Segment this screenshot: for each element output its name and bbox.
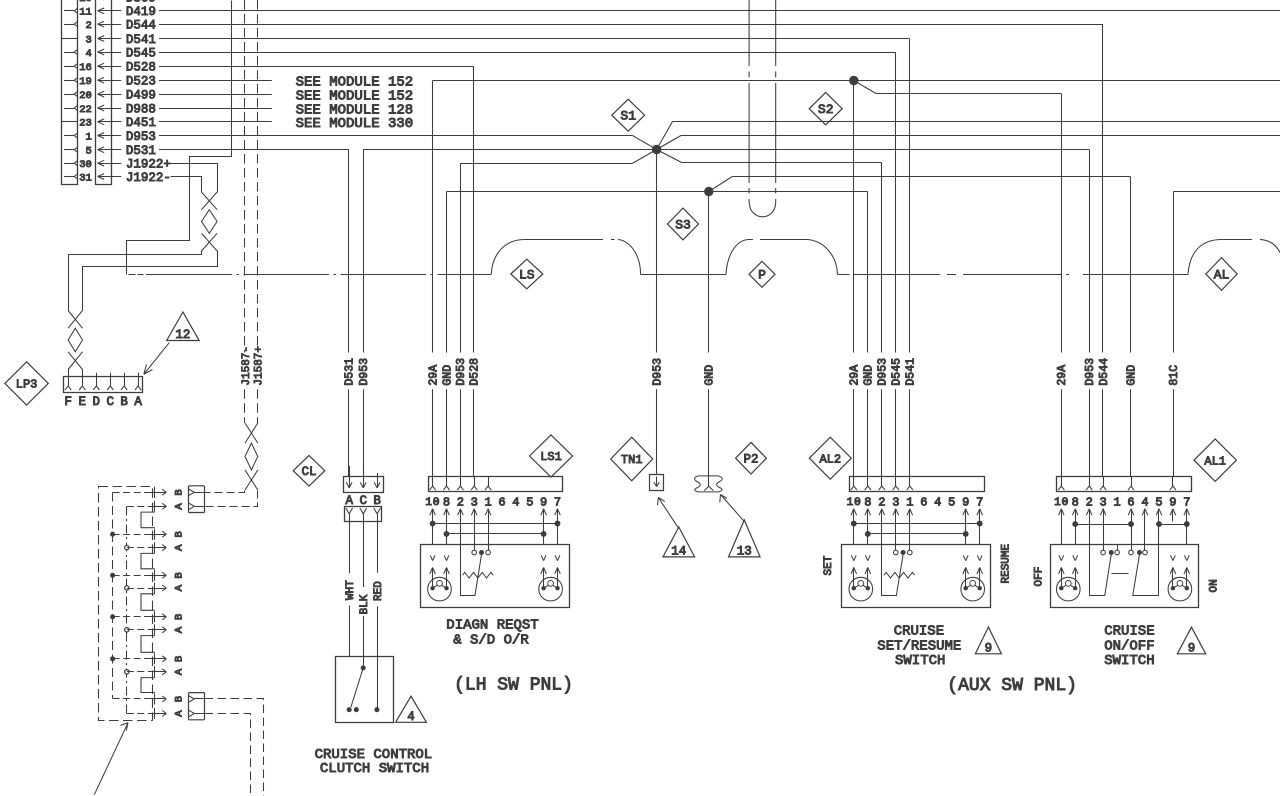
wire D545: [159, 52, 895, 54]
ECU pin 19 row (D523): [64, 75, 156, 89]
AL2 pin 1 arrow: [907, 509, 913, 522]
svg-text:B: B: [173, 696, 185, 702]
svg-text:D988: D988: [126, 102, 156, 116]
connector ECU outer box: [62, 0, 78, 185]
loop bracket 2: [141, 553, 155, 568]
switch DIAGN box: [421, 545, 570, 608]
svg-text:S1: S1: [620, 109, 636, 124]
connector AL2 box: [850, 476, 985, 491]
svg-text:11: 11: [79, 7, 92, 19]
AL1 pin 2 arrow: [1086, 509, 1092, 522]
svg-text:CLUTCH SWITCH: CLUTCH SWITCH: [320, 761, 429, 777]
svg-text:12: 12: [175, 328, 190, 342]
svg-text:B: B: [373, 494, 381, 508]
svg-text:A: A: [173, 626, 185, 633]
AL1 pin 6 arrow: [1128, 509, 1134, 522]
svg-text:SET: SET: [823, 555, 835, 575]
svg-text:8: 8: [864, 495, 871, 509]
svg-text:0: 0: [1061, 497, 1068, 509]
svg-text:D419: D419: [126, 5, 156, 19]
wire D953 to LS1: [460, 150, 656, 164]
svg-text:3: 3: [892, 495, 899, 509]
connector LP3 box: [64, 373, 143, 393]
diamond S3: [668, 208, 699, 240]
AL1 pin2 wire: [1089, 522, 1091, 596]
LS1 link pin10-pin7: [430, 521, 560, 544]
svg-text:ON/OFF: ON/OFF: [1104, 639, 1154, 655]
svg-text:5: 5: [85, 146, 91, 158]
svg-text:9: 9: [540, 495, 547, 509]
svg-text:D544: D544: [126, 18, 156, 32]
ECU pin 3 row (D541): [62, 33, 156, 47]
wire D953 to S1: [159, 136, 657, 150]
connector LS1 box: [429, 476, 563, 491]
wire D953 branch upper right: [657, 122, 1280, 150]
AL1 pin 9 arrow: [1170, 509, 1176, 522]
svg-text:D531: D531: [344, 358, 357, 386]
wire J1922 leg right step: [83, 251, 218, 311]
wire LP3 pin F lead: [68, 370, 70, 377]
wire J1922+ row: [171, 164, 218, 193]
dashed box outer: [99, 487, 153, 721]
AL1 pin 4 arrow: [1142, 509, 1148, 522]
DIAGN lamp right: [539, 577, 563, 601]
cruise control clutch switch box: [336, 657, 394, 723]
ON/OFF lamp left: [1057, 577, 1081, 601]
dashed stub pair left: [748, 0, 750, 204]
ECU pin 30 row (J1922+): [64, 158, 171, 172]
wire J1922 leg left step: [69, 251, 202, 311]
svg-text:WHT: WHT: [345, 580, 357, 600]
loom bump AL: [1188, 240, 1280, 275]
diamond TN1: [611, 437, 653, 481]
SET/RESUME contacts and lever: [882, 550, 912, 596]
ECU pin 11 row (D419): [64, 5, 156, 19]
svg-text:D953: D953: [876, 358, 889, 386]
svg-text:GND: GND: [862, 365, 875, 386]
column D528 to LS1: [469, 66, 482, 476]
ON/OFF left contacts and lever: [1089, 550, 1119, 596]
dashed J1587- line: [241, 0, 253, 423]
A/B pair 5 row A: [125, 666, 186, 677]
svg-text:29A: 29A: [849, 365, 862, 386]
svg-text:1: 1: [906, 495, 913, 509]
svg-text:4: 4: [512, 495, 519, 509]
dashed wire from Y-box row B to bottom: [205, 699, 264, 796]
svg-text:29A: 29A: [428, 365, 441, 386]
splice S3: [705, 187, 713, 195]
AL2 link pin10-pin7: [851, 521, 982, 544]
column 29A to AL2: [849, 81, 862, 477]
LS1 pin3 wire: [474, 522, 476, 551]
AL2 pin numbers: [846, 495, 983, 509]
svg-text:S3: S3: [675, 217, 691, 232]
AL2 pin 9 arrow: [963, 509, 969, 522]
column D953 to AL1: [1084, 150, 1097, 477]
wire D528: [159, 66, 474, 68]
svg-text:SET/RESUME: SET/RESUME: [877, 639, 961, 655]
AL1 link pin8-pin6: [1073, 522, 1134, 545]
svg-text:B: B: [173, 531, 185, 537]
wire BLK: [359, 522, 371, 668]
svg-text:J1922+: J1922+: [126, 158, 171, 172]
svg-text:20: 20: [79, 90, 92, 102]
wire D953 branch mid right: [657, 136, 1280, 150]
arrow from triangle 13: [720, 495, 745, 522]
triangle 9 callout (AL1): [1177, 627, 1205, 655]
svg-text:29A: 29A: [1056, 365, 1069, 386]
twisted pair to LP3: [68, 311, 82, 370]
svg-text:C: C: [107, 395, 115, 409]
svg-text:4: 4: [1141, 495, 1148, 509]
A/B pair 3 row A: [125, 583, 186, 594]
triangle 14 callout: [663, 527, 695, 558]
ECU pin 2 row (D544): [64, 18, 156, 32]
svg-text:9: 9: [1188, 641, 1196, 655]
svg-text:S2: S2: [818, 102, 834, 117]
svg-text:B: B: [120, 395, 128, 409]
A/B pair 1 row B: [113, 487, 186, 498]
svg-text:TN1: TN1: [621, 453, 643, 467]
dashed stub pair right: [775, 0, 777, 204]
svg-text:2: 2: [85, 20, 91, 32]
LS1 pin 3 arrow: [471, 509, 477, 522]
wire GND to AL1: [709, 177, 1131, 192]
svg-text:4: 4: [934, 495, 941, 509]
wire D531 row: [159, 149, 349, 151]
LS1 pin 10 arrow: [430, 509, 436, 522]
svg-text:6: 6: [920, 495, 927, 509]
LS1 pin 2 arrow: [458, 509, 464, 522]
svg-text:1: 1: [484, 495, 491, 509]
svg-text:8: 8: [1072, 495, 1079, 509]
wire D499 stub: [159, 94, 272, 96]
wire D988 stub: [159, 108, 272, 110]
connector Y-box bottom: [189, 693, 205, 720]
AL1 pin 8 arrow: [1073, 509, 1079, 522]
loom line right section: [837, 274, 1188, 276]
AL2 pin 10 arrow: [851, 509, 857, 522]
svg-text:LP3: LP3: [16, 378, 38, 392]
svg-text:CL: CL: [301, 465, 316, 479]
svg-text:9: 9: [985, 641, 993, 655]
connector AL1 box: [1057, 476, 1192, 491]
diamond AL1: [1194, 439, 1236, 481]
twisted pair J1922: [202, 192, 218, 251]
column D541 to AL2: [905, 39, 918, 477]
wire D544: [159, 24, 1103, 26]
dashed J1587+ line: [254, 0, 266, 423]
svg-text:30: 30: [79, 159, 92, 171]
LS1 pin numbers: [425, 495, 561, 509]
diamond P: [749, 261, 775, 287]
svg-text:B: B: [173, 614, 185, 620]
AL2 link pin8-pin9: [865, 522, 968, 545]
column D953 to TN1: [652, 150, 665, 475]
ECU pin 22 row (D988): [64, 102, 156, 116]
svg-text:13: 13: [737, 544, 752, 558]
A/B pair 5 row B: [111, 653, 186, 664]
svg-text:8: 8: [443, 495, 450, 509]
svg-text:J1587+: J1587+: [254, 346, 266, 386]
svg-text:81C: 81C: [1168, 365, 1181, 386]
wire LP3 pin E lead: [82, 370, 84, 377]
svg-text:B: B: [173, 656, 185, 662]
A/B pair 1 row A: [127, 501, 186, 512]
A/B pair 3 row B: [111, 570, 186, 581]
svg-text:D953: D953: [358, 358, 371, 386]
ECU pin 4 row (D545): [64, 46, 156, 60]
AL1 pin3 wire: [1103, 522, 1105, 551]
svg-text:SWITCH: SWITCH: [1104, 653, 1154, 669]
svg-text:1: 1: [1054, 497, 1061, 509]
svg-text:ON: ON: [1209, 579, 1221, 592]
LS1 pin1 wire: [488, 522, 490, 551]
diamond LP3: [5, 362, 48, 405]
diamond S2: [809, 93, 842, 125]
column D531 to CL: [344, 150, 357, 477]
ECU pin 16 row (D528): [64, 60, 156, 74]
ON/OFF mechanical link: [1112, 573, 1129, 575]
loom bump P: [726, 240, 837, 275]
svg-text:C: C: [359, 494, 367, 508]
connector Y-box top (J1587): [189, 486, 205, 513]
svg-text:6: 6: [1127, 495, 1134, 509]
svg-text:D953: D953: [652, 358, 665, 386]
arrow from triangle 14: [658, 498, 679, 529]
column D544 to AL1: [1098, 24, 1111, 476]
svg-text:2: 2: [1086, 495, 1093, 509]
ECU pin 1 row (D953): [64, 130, 156, 144]
SET/RESUME lamp left: [849, 577, 873, 601]
svg-text:5: 5: [1155, 495, 1162, 509]
AL2 pin 2 arrow: [879, 509, 885, 522]
svg-text:J1922-: J1922-: [126, 171, 171, 185]
wire WHT: [345, 522, 357, 656]
switch SET/RESUME box: [842, 545, 991, 608]
diamond AL2: [809, 437, 851, 479]
wire D953 through S1: [363, 149, 1089, 151]
svg-text:D531: D531: [126, 144, 156, 158]
svg-text:OFF: OFF: [1034, 567, 1046, 587]
svg-text:D544: D544: [1098, 358, 1111, 386]
svg-text:A: A: [173, 503, 185, 510]
A/B pair 6 row A: [127, 708, 186, 719]
AL1 pin6 wire: [1131, 522, 1133, 551]
diamond S1: [612, 99, 645, 131]
svg-text:D953: D953: [1084, 358, 1097, 386]
wire J1587- leg: [205, 491, 245, 493]
column GND to AL2: [862, 192, 875, 477]
triangle 9 callout (AL2): [975, 627, 1001, 655]
dashed wire from Y-box row A to bottom: [205, 714, 251, 796]
svg-text:A: A: [173, 710, 185, 717]
svg-text:D541: D541: [905, 358, 918, 386]
AL1 pin1 stub: [1117, 544, 1119, 550]
AL1 pin 10 arrow: [1059, 509, 1065, 522]
svg-text:D: D: [93, 395, 101, 409]
svg-text:SWITCH: SWITCH: [895, 653, 945, 669]
A/B pair 6 row B: [113, 694, 186, 705]
AL2 pin1 wire: [909, 522, 911, 551]
wire J1587+ leg: [205, 491, 258, 507]
ECU pin 23 row (D451): [62, 116, 156, 130]
column 29A to LS1: [428, 81, 441, 477]
DIAGN lamp left: [428, 577, 452, 601]
svg-text:19: 19: [79, 76, 92, 88]
svg-text:E: E: [79, 395, 87, 409]
ECU pin 20 row (D499): [64, 88, 156, 102]
svg-text:BLK: BLK: [359, 594, 371, 614]
svg-text:D499: D499: [126, 88, 156, 102]
svg-text:0: 0: [854, 497, 861, 509]
svg-text:23: 23: [79, 118, 92, 130]
svg-text:D451: D451: [126, 116, 156, 130]
AL1 link pin5-pin7: [1157, 522, 1190, 545]
svg-text:B: B: [173, 489, 185, 495]
svg-text:A: A: [134, 395, 142, 409]
AL2 pin 8 arrow: [865, 509, 871, 522]
svg-text:D953: D953: [455, 358, 468, 386]
ON/OFF right contacts and lever: [1129, 550, 1159, 596]
svg-text:D528: D528: [469, 358, 482, 386]
svg-text:(AUX SW PNL): (AUX SW PNL): [947, 676, 1077, 696]
A/B pair 4 row A: [125, 624, 186, 635]
svg-text:22: 22: [79, 104, 92, 116]
svg-text:GND: GND: [704, 365, 717, 386]
DIAGN resistor: [463, 572, 494, 578]
svg-text:J1587-: J1587-: [241, 346, 253, 386]
column GND to P2: [704, 192, 717, 487]
svg-text:1: 1: [425, 497, 432, 509]
svg-text:6: 6: [498, 495, 505, 509]
svg-text:RED: RED: [373, 581, 385, 601]
loop bracket 1: [141, 512, 155, 528]
svg-text:CRUISE: CRUISE: [1104, 624, 1154, 640]
svg-text:7: 7: [976, 495, 983, 509]
column D953 to LS1: [455, 164, 468, 477]
A/B pair 2 row A: [125, 542, 186, 553]
svg-text:D545: D545: [890, 358, 903, 386]
svg-text:D528: D528: [126, 60, 156, 74]
diamond LS: [511, 259, 543, 289]
connector TN1 box (terminating resistor): [650, 475, 664, 491]
svg-text:A: A: [173, 584, 185, 591]
diamond LS1: [530, 435, 573, 477]
svg-text:LS1: LS1: [540, 450, 562, 464]
wire D523 stub: [159, 80, 272, 82]
connector CL upper box (down arrows): [344, 466, 384, 493]
svg-text:0: 0: [433, 497, 440, 509]
svg-text:P: P: [758, 268, 766, 283]
svg-text:7: 7: [1183, 495, 1190, 509]
AL1 pin 5 arrow: [1156, 509, 1162, 522]
column 29A to AL1: [1056, 94, 1069, 477]
dashed bus line B: [126, 507, 128, 714]
AL2 pin 7 arrow: [977, 509, 983, 522]
wire 29A (S2 bus): [433, 80, 1280, 82]
column D953 to AL2: [876, 163, 889, 477]
column GND to AL1: [1125, 177, 1138, 477]
connector ECU inner box: [96, 0, 112, 185]
svg-text:1: 1: [85, 131, 91, 143]
connector CL lower box (Y pins): [345, 507, 382, 522]
P2 wire end chevron: [704, 486, 713, 490]
svg-text:14: 14: [671, 544, 686, 558]
svg-text:B: B: [173, 572, 185, 578]
wire J1922- row: [171, 177, 202, 193]
svg-text:GND: GND: [1125, 365, 1138, 386]
dashed stub U bottom: [750, 204, 776, 217]
AL2 pin 3 arrow: [893, 509, 899, 522]
triangle 4 callout: [396, 696, 427, 724]
arrow callout to dashed box: [94, 723, 128, 795]
ECU pin 10 row (D869): [64, 0, 156, 5]
svg-text:RESUME: RESUME: [1001, 543, 1013, 583]
wire D953 to AL2: [657, 150, 882, 163]
svg-text:P2: P2: [743, 452, 758, 466]
AL1 pin 3 arrow: [1100, 509, 1106, 522]
diamond AL: [1206, 258, 1237, 291]
loop bracket 5: [141, 678, 155, 693]
svg-text:1: 1: [1113, 495, 1120, 509]
AL1 pin10 wire: [1061, 522, 1063, 545]
wire D419: [159, 10, 1280, 12]
DIAGN switch contacts and lever: [460, 550, 490, 596]
AL2 pin2 wire: [881, 522, 883, 596]
svg-text:GND: GND: [441, 365, 454, 386]
wire RED: [373, 522, 385, 708]
svg-text:3: 3: [471, 495, 478, 509]
AL2 pin3 wire: [895, 522, 897, 551]
svg-text:A: A: [173, 544, 185, 551]
svg-text:16: 16: [79, 62, 92, 74]
column GND to LS1: [441, 192, 454, 477]
splice S2: [850, 76, 858, 84]
wire D451 stub: [159, 121, 272, 123]
ECU pin 5 row (D531): [64, 144, 156, 158]
arrow from triangle 12 to LP3: [144, 343, 169, 375]
svg-text:9: 9: [1169, 495, 1176, 509]
ECU pin 31 row (J1922-): [64, 171, 171, 185]
LS1 pin 9 arrow: [541, 509, 547, 522]
svg-text:LS: LS: [519, 267, 535, 282]
svg-text:2: 2: [457, 495, 464, 509]
svg-text:3: 3: [1099, 495, 1106, 509]
svg-text:D541: D541: [126, 33, 156, 47]
svg-text:D523: D523: [126, 75, 156, 89]
loop bracket 3: [141, 594, 155, 611]
svg-text:AL1: AL1: [1204, 454, 1226, 468]
svg-text:F: F: [64, 395, 72, 409]
wire D541: [159, 38, 910, 40]
svg-text:3: 3: [85, 34, 91, 46]
column D545 to AL2: [890, 52, 903, 476]
diamond P2: [736, 442, 767, 474]
AL1 pin5 wire: [1158, 522, 1160, 596]
triangle 13 callout: [729, 520, 761, 558]
LS1 pin 7 arrow: [555, 509, 561, 522]
wire shield step to loom: [127, 1, 232, 275]
wire 29A to AL1: [857, 82, 1062, 93]
svg-text:AL: AL: [1214, 267, 1230, 282]
svg-text:1: 1: [846, 497, 853, 509]
loom line left section: [129, 274, 492, 276]
loom line mid section: [641, 274, 726, 276]
svg-text:5: 5: [948, 495, 955, 509]
svg-text:9: 9: [962, 495, 969, 509]
LS1 pin2 wire: [460, 522, 462, 596]
